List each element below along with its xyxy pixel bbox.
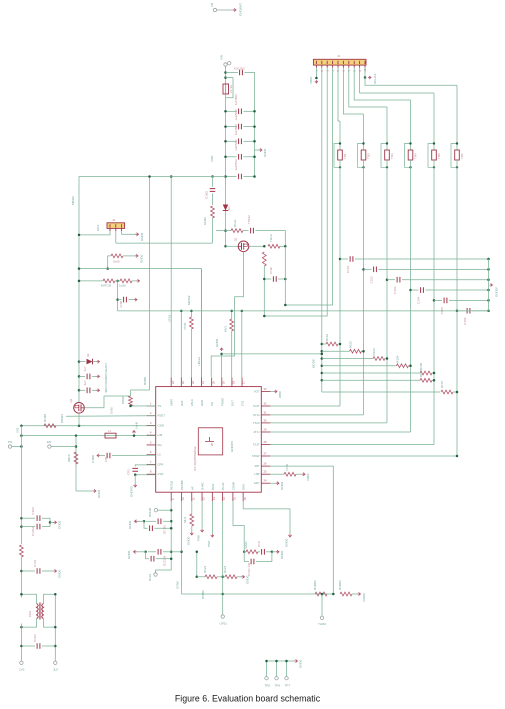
wire V terminal	[12, 446, 22, 448]
wire gate row left	[216, 230, 231, 232]
wire snubber A v	[243, 549, 245, 562]
resistor R124	[225, 575, 237, 579]
test point TP7	[285, 677, 291, 688]
resistor TR6	[451, 142, 464, 168]
svg-text:MESW: MESW	[187, 295, 191, 305]
junction gnd rail row 4	[487, 289, 490, 292]
wire cap bank row 4 right	[244, 156, 255, 158]
ground flag GND1	[233, 3, 243, 16]
wire IC right to column 4	[270, 431, 410, 433]
junction rail V	[20, 445, 23, 448]
svg-text:DC1M: DC1M	[163, 525, 167, 534]
junction column 1 rung	[339, 343, 342, 346]
svg-text:GND0: GND0	[263, 148, 267, 157]
svg-text:GND0: GND0	[97, 489, 101, 498]
supply flag VOT	[274, 390, 282, 398]
IC U1 pin 15 (bottom)	[231, 481, 236, 501]
capacitor C2	[240, 70, 243, 76]
svg-text:LBLK: LBLK	[190, 399, 194, 406]
svg-text:LTV8: LTV8	[285, 464, 289, 471]
net label MESW	[187, 295, 191, 305]
junction rail B row 2	[253, 125, 256, 128]
wire cap row 4 right	[426, 289, 489, 291]
label R10A	[43, 413, 47, 422]
junction gate net	[129, 405, 132, 408]
ground flag GND2	[259, 148, 267, 157]
svg-text:TP6: TP6	[275, 684, 281, 688]
test point TPB	[148, 573, 157, 581]
wire VBAT row	[79, 176, 226, 178]
wire IC right to column 3	[270, 422, 387, 424]
wire C1A right	[42, 518, 50, 526]
wire LED row left	[108, 256, 111, 269]
wire C31 to flag	[92, 389, 97, 391]
svg-text:VB: VB	[210, 3, 214, 7]
wire J1 pin8 fan	[354, 68, 410, 100]
junction C5B	[170, 527, 173, 530]
ground flag r row	[242, 575, 250, 584]
junction column 5 rung	[433, 372, 436, 375]
IC U1 pin 12 (bottom)	[201, 482, 206, 501]
wire column 2 upper	[363, 114, 365, 150]
junction snubber A	[243, 551, 246, 554]
capacitor C21	[346, 256, 353, 273]
wire cap row 1 left	[340, 258, 348, 260]
wire pin15 to snubber	[233, 501, 244, 549]
junction rail A row 4	[224, 156, 227, 159]
IC U1 pin 45 (right)	[253, 428, 270, 435]
junction column 4 cap row	[409, 289, 412, 292]
svg-text:4u7: 4u7	[83, 366, 87, 371]
svg-text:PG: PG	[210, 402, 214, 406]
wire tp 2	[276, 661, 278, 677]
capacitor C1K	[33, 634, 40, 649]
wire TP1 to GND flag	[217, 9, 234, 11]
svg-text:RG: RG	[158, 443, 162, 447]
wire CM1 in bottom	[21, 619, 36, 627]
ground flag LED	[135, 254, 144, 263]
ground flag 521	[128, 520, 138, 529]
wire IC right to column 2	[270, 414, 363, 416]
ground flag C1A1	[54, 569, 62, 578]
ground flag GD7	[276, 481, 284, 490]
svg-text:VIN: VIN	[220, 55, 224, 60]
svg-text:CP2: CP2	[127, 469, 131, 475]
flag pin12	[197, 529, 204, 541]
wire to TP1b	[158, 509, 172, 511]
svg-text:J2: J2	[112, 218, 116, 222]
wire snubber A stub	[244, 551, 246, 553]
wire IC pin4 row	[21, 435, 155, 437]
svg-text:SJJT: SJJT	[253, 404, 260, 408]
wire EN to x76	[51, 446, 76, 448]
wire x76 bottom	[76, 490, 93, 492]
capacitor CP2	[127, 468, 139, 475]
wire cap row 6 left	[457, 310, 465, 312]
label TG1A	[269, 234, 273, 242]
junction C1 pair	[49, 521, 52, 524]
svg-text:1k00: 1k00	[113, 260, 120, 264]
wire drop node down	[284, 246, 286, 305]
wire cap row 521 left	[146, 520, 156, 522]
net label MSW1	[60, 414, 64, 423]
wire VBAT to gate pullup	[149, 177, 151, 391]
wire latch down	[117, 281, 119, 311]
svg-text:GND0: GND0	[140, 254, 144, 263]
junction rail A Q1 row	[224, 245, 227, 248]
net label R6050	[201, 590, 205, 599]
junction tp 1	[265, 660, 268, 663]
junction VBAT pullup	[148, 175, 151, 178]
junction rail BAL	[78, 267, 81, 270]
svg-text:R104: R104	[396, 355, 400, 363]
ground flag n100	[134, 298, 137, 301]
label R101	[325, 333, 329, 341]
svg-text:C102: C102	[370, 276, 374, 284]
label R1L	[285, 464, 289, 471]
IC U1 pin 46 (right)	[253, 440, 271, 447]
junction C1A1 row	[20, 570, 23, 573]
junction rail B row 3	[253, 140, 256, 143]
wire CP2 to gnd	[134, 475, 136, 484]
svg-text:TS: TS	[158, 404, 162, 408]
IC U1 pin 22 (top)	[190, 378, 195, 407]
wire pin12 stub	[201, 501, 203, 529]
capacitor C1M2	[205, 189, 216, 199]
junction pin10 row	[180, 551, 183, 554]
wire CP2 top	[135, 465, 156, 467]
svg-text:VBST: VBST	[309, 76, 313, 84]
net label MODE	[312, 359, 316, 368]
wire battery rail	[78, 177, 80, 403]
svg-text:RESBB: RESBB	[180, 480, 184, 490]
label GNDPD	[230, 440, 234, 452]
wire Q2 source	[78, 413, 80, 426]
wire rung 2 end	[362, 350, 364, 352]
ground flag x76	[93, 489, 101, 498]
svg-text:SYNC: SYNC	[176, 580, 180, 589]
svg-text:Figure 6. Evaluation board sch: Figure 6. Evaluation board schematic	[175, 694, 321, 704]
svg-text:GND0: GND0	[362, 593, 366, 602]
resistor R123	[205, 575, 217, 579]
wire rail B to ground	[255, 149, 260, 151]
wire C30 to flag	[92, 375, 97, 377]
wire C4M left	[99, 455, 105, 457]
capacitor C16	[234, 159, 241, 179]
IC U1 pin 4 (left)	[147, 431, 163, 438]
junction rail A row 2	[224, 125, 227, 128]
svg-text:P6B: P6B	[197, 535, 201, 541]
svg-text:Q1: Q1	[234, 237, 238, 241]
junction gnd rail row 1	[487, 258, 490, 261]
junction rail A row 5	[224, 175, 227, 178]
svg-text:MH1: MH1	[183, 516, 187, 523]
wire snubber C left	[244, 561, 249, 563]
junction rail latch	[78, 280, 81, 283]
wire CM1 in top	[21, 594, 36, 603]
svg-text:J1: J1	[337, 54, 341, 58]
junction column 6 cap row	[456, 310, 459, 313]
IC U1 thermal pad	[198, 428, 222, 455]
junction TP row	[321, 593, 324, 596]
svg-text:R6M0: R6M0	[143, 377, 147, 385]
IC U1 pin 14 (bottom)	[221, 482, 226, 501]
svg-text:C1K0: C1K0	[33, 634, 37, 642]
diode D2	[86, 353, 93, 364]
resistor R1L	[284, 472, 296, 476]
junction CM1 in bottom	[20, 626, 23, 629]
junction snubber B	[271, 551, 274, 554]
wire n100 left	[118, 299, 122, 301]
wire cap row 2 left	[364, 268, 372, 270]
wire cap row 3 right	[402, 279, 489, 281]
diode D1	[223, 205, 231, 211]
wire rung 5 end	[432, 372, 434, 374]
IC U1 pin 13 (bottom)	[211, 483, 216, 501]
junction pin9 tp row	[170, 509, 173, 512]
wire IC pin3 row	[21, 425, 155, 427]
connector J2	[96, 218, 125, 231]
svg-text:CVR: CVR	[158, 472, 164, 476]
IC U1 pin 43 (right)	[253, 410, 270, 417]
junction caps C1B	[20, 525, 23, 528]
wire column 3 lower	[386, 160, 388, 423]
junction column 4 rung	[409, 365, 412, 368]
wire X1 down to fuse	[225, 66, 227, 84]
junction pin19	[220, 353, 223, 356]
capacitor C26	[463, 308, 470, 325]
IC U1 pin 7 (left)	[147, 460, 164, 467]
resistor R104	[397, 364, 409, 368]
svg-text:TG1A: TG1A	[269, 234, 273, 242]
test point TP6	[275, 677, 281, 688]
resistor R105	[420, 371, 432, 375]
capacitor C24	[417, 287, 424, 304]
terminal X1 pin2	[228, 62, 231, 65]
svg-text:R1M03: R1M03	[338, 580, 342, 590]
wire J1 pin10 to column 6	[365, 78, 457, 86]
svg-text:GNDPD: GNDPD	[130, 485, 134, 497]
supply flag LB0	[302, 473, 310, 481]
svg-text:R103: R103	[372, 348, 376, 356]
junction rail left top	[20, 424, 23, 427]
wire C1M2 top	[212, 177, 214, 187]
IC U1 pin 1 (left)	[147, 401, 162, 408]
IC U1 pin 18 (top)	[230, 378, 235, 407]
label R1M02	[313, 580, 317, 590]
wire column 1 upper	[339, 121, 341, 150]
svg-text:C10A2: C10A2	[31, 526, 35, 536]
svg-text:SCL/A1: SCL/A1	[373, 73, 377, 84]
test point TP1	[210, 3, 217, 12]
wire J1 pin9 fan	[360, 68, 434, 93]
wire J1 pin5 fan	[338, 68, 340, 121]
capacitor C1A	[31, 507, 40, 521]
svg-text:C10n: C10n	[269, 266, 273, 274]
junction MODE rung 1	[321, 343, 324, 346]
connector J1 pin 4	[332, 61, 335, 72]
junction fuse loop top	[224, 76, 227, 79]
IC U1 pin 11 (bottom)	[190, 486, 195, 501]
svg-text:AF: AF	[190, 486, 194, 490]
wire bottom row	[182, 593, 334, 595]
junction pin18	[230, 310, 233, 313]
svg-text:1uF/50V: 1uF/50V	[234, 159, 238, 170]
wire CP2 bottom	[135, 473, 156, 475]
capacitor C1B	[269, 266, 276, 281]
wire C1M2 to R1M2	[212, 194, 214, 206]
svg-text:WB0: WB0	[278, 391, 282, 398]
svg-text:MB1M: MB1M	[71, 196, 75, 205]
junction cap bridge left	[263, 278, 266, 281]
net label VIN	[210, 155, 214, 162]
junction caps C1A	[20, 517, 23, 520]
wire latch row left	[79, 280, 103, 282]
capacitor C31	[83, 380, 90, 393]
wire rung 3	[322, 358, 373, 360]
junction gnd rail row 2	[487, 268, 490, 271]
IC U1 pin 16 (bottom)	[242, 484, 247, 502]
svg-text:1u00: 1u00	[119, 284, 126, 288]
svg-text:CPR: CPR	[158, 462, 164, 466]
label pullup	[143, 377, 147, 385]
junction rail A gate row	[224, 229, 227, 232]
svg-text:+BAL2: +BAL2	[197, 357, 201, 366]
junction latch mid	[116, 280, 119, 283]
junction pin23	[180, 310, 183, 313]
wire latch right	[132, 280, 137, 282]
resistor R10A	[44, 424, 56, 428]
svg-text:1uF/50V: 1uF/50V	[234, 124, 238, 135]
wire cap row 6 right	[472, 310, 489, 312]
wire C1A left	[21, 517, 35, 519]
inductor L1	[105, 429, 116, 438]
wire rung 1	[322, 343, 326, 345]
svg-text:C1A1: C1A1	[33, 559, 37, 567]
wire J1 pin2 MODE vertical	[321, 68, 323, 392]
label RL1	[101, 284, 111, 288]
label R1U	[224, 326, 228, 333]
label R123	[203, 565, 207, 573]
connector J1 pin 5	[337, 61, 340, 72]
net label VS	[16, 427, 20, 433]
ground flag C31	[97, 389, 100, 392]
wire J1 pin10	[364, 68, 366, 78]
label RS1	[244, 541, 248, 549]
svg-text:C1S2 1n0: C1S2 1n0	[247, 562, 251, 576]
svg-text:R6050: R6050	[201, 590, 205, 599]
junction pin17	[241, 310, 244, 313]
connector J1	[313, 54, 366, 65]
connector J2 pin 3	[121, 224, 123, 231]
junction column 1 cap row	[339, 258, 342, 261]
wire pin21 up	[201, 269, 203, 378]
connector J1 pin 8	[353, 61, 356, 72]
resistor RL1	[103, 279, 115, 283]
svg-text:C10: C10	[257, 541, 261, 547]
svg-text:CM1: CM1	[28, 610, 32, 617]
junction cap row 521	[170, 520, 173, 523]
junction cap bridge right	[284, 278, 287, 281]
wire net row 311	[118, 310, 489, 312]
junction pin22	[190, 310, 193, 313]
capacitor C15	[234, 139, 241, 159]
junction rail J2	[78, 234, 81, 237]
wire pin22 up upper	[190, 311, 192, 317]
IC U1 pin 2 (left)	[147, 411, 166, 418]
wire tp 1	[266, 661, 268, 677]
IC U1 pin 5 (left)	[147, 440, 162, 447]
svg-text:GND0: GND0	[127, 550, 131, 559]
ground flag 551	[127, 550, 137, 559]
capacitor C13	[234, 109, 241, 129]
svg-text:D2: D2	[86, 353, 90, 357]
capacitor C1A	[247, 215, 253, 234]
junction VBAT row	[170, 175, 173, 178]
svg-text:TR3: TR3	[390, 153, 394, 159]
junction Q2 source	[78, 424, 81, 427]
svg-text:TSJT: TSJT	[253, 443, 260, 447]
junction gnd rail row 5	[487, 299, 490, 302]
junction EN	[75, 445, 78, 448]
capacitor C25	[440, 298, 447, 315]
svg-text:R107: R107	[440, 380, 444, 388]
svg-text:GND0: GND0	[280, 481, 284, 490]
resistor TR3	[381, 142, 394, 168]
junction CP2	[134, 473, 137, 476]
wire left rail mid	[20, 557, 22, 598]
test point TPC	[220, 615, 228, 626]
connector J1 pin 7	[348, 61, 351, 72]
label R1A	[233, 219, 237, 227]
label R124	[223, 565, 227, 573]
wire rung 4	[322, 365, 397, 367]
svg-text:C103: C103	[393, 286, 397, 294]
junction drop node	[284, 245, 287, 248]
svg-text:K2C202: K2C202	[234, 67, 245, 71]
wire rung 6 end	[432, 379, 434, 381]
svg-text:TR4: TR4	[414, 153, 418, 159]
net label SYNC	[176, 580, 180, 589]
junction gnd rail row 3	[487, 278, 490, 281]
label R103	[372, 348, 376, 356]
resistor K1M2	[211, 206, 215, 218]
op-amp U1 IC body	[156, 387, 262, 493]
supply flag LOAD	[132, 421, 138, 433]
junction bottom row right	[332, 593, 335, 596]
svg-text:1uF/50V: 1uF/50V	[234, 139, 238, 150]
wire R6M to IC pin1	[131, 405, 156, 407]
svg-text:VIN1: VIN1	[210, 155, 214, 162]
wire snubber C right	[256, 552, 272, 562]
wire J1 pin6 fan	[343, 68, 363, 114]
ground flag J2 pin3	[136, 232, 145, 241]
wire CM1 out bottom	[44, 619, 56, 627]
resistor R101	[326, 342, 338, 346]
label IC1	[193, 446, 197, 471]
junction column 5 cap row	[433, 299, 436, 302]
junction C1M2 top	[211, 175, 214, 178]
terminal TP V	[8, 440, 13, 448]
flag pin13	[207, 534, 214, 547]
wire 521 to gnd	[137, 520, 144, 522]
wire column 5 lower	[433, 160, 435, 445]
svg-text:COMP: COMP	[231, 481, 235, 490]
wire C1B left	[21, 526, 35, 528]
wire rung 2	[322, 350, 350, 352]
svg-text:MV1: MV1	[224, 326, 228, 333]
terminal X2 N	[53, 661, 58, 671]
